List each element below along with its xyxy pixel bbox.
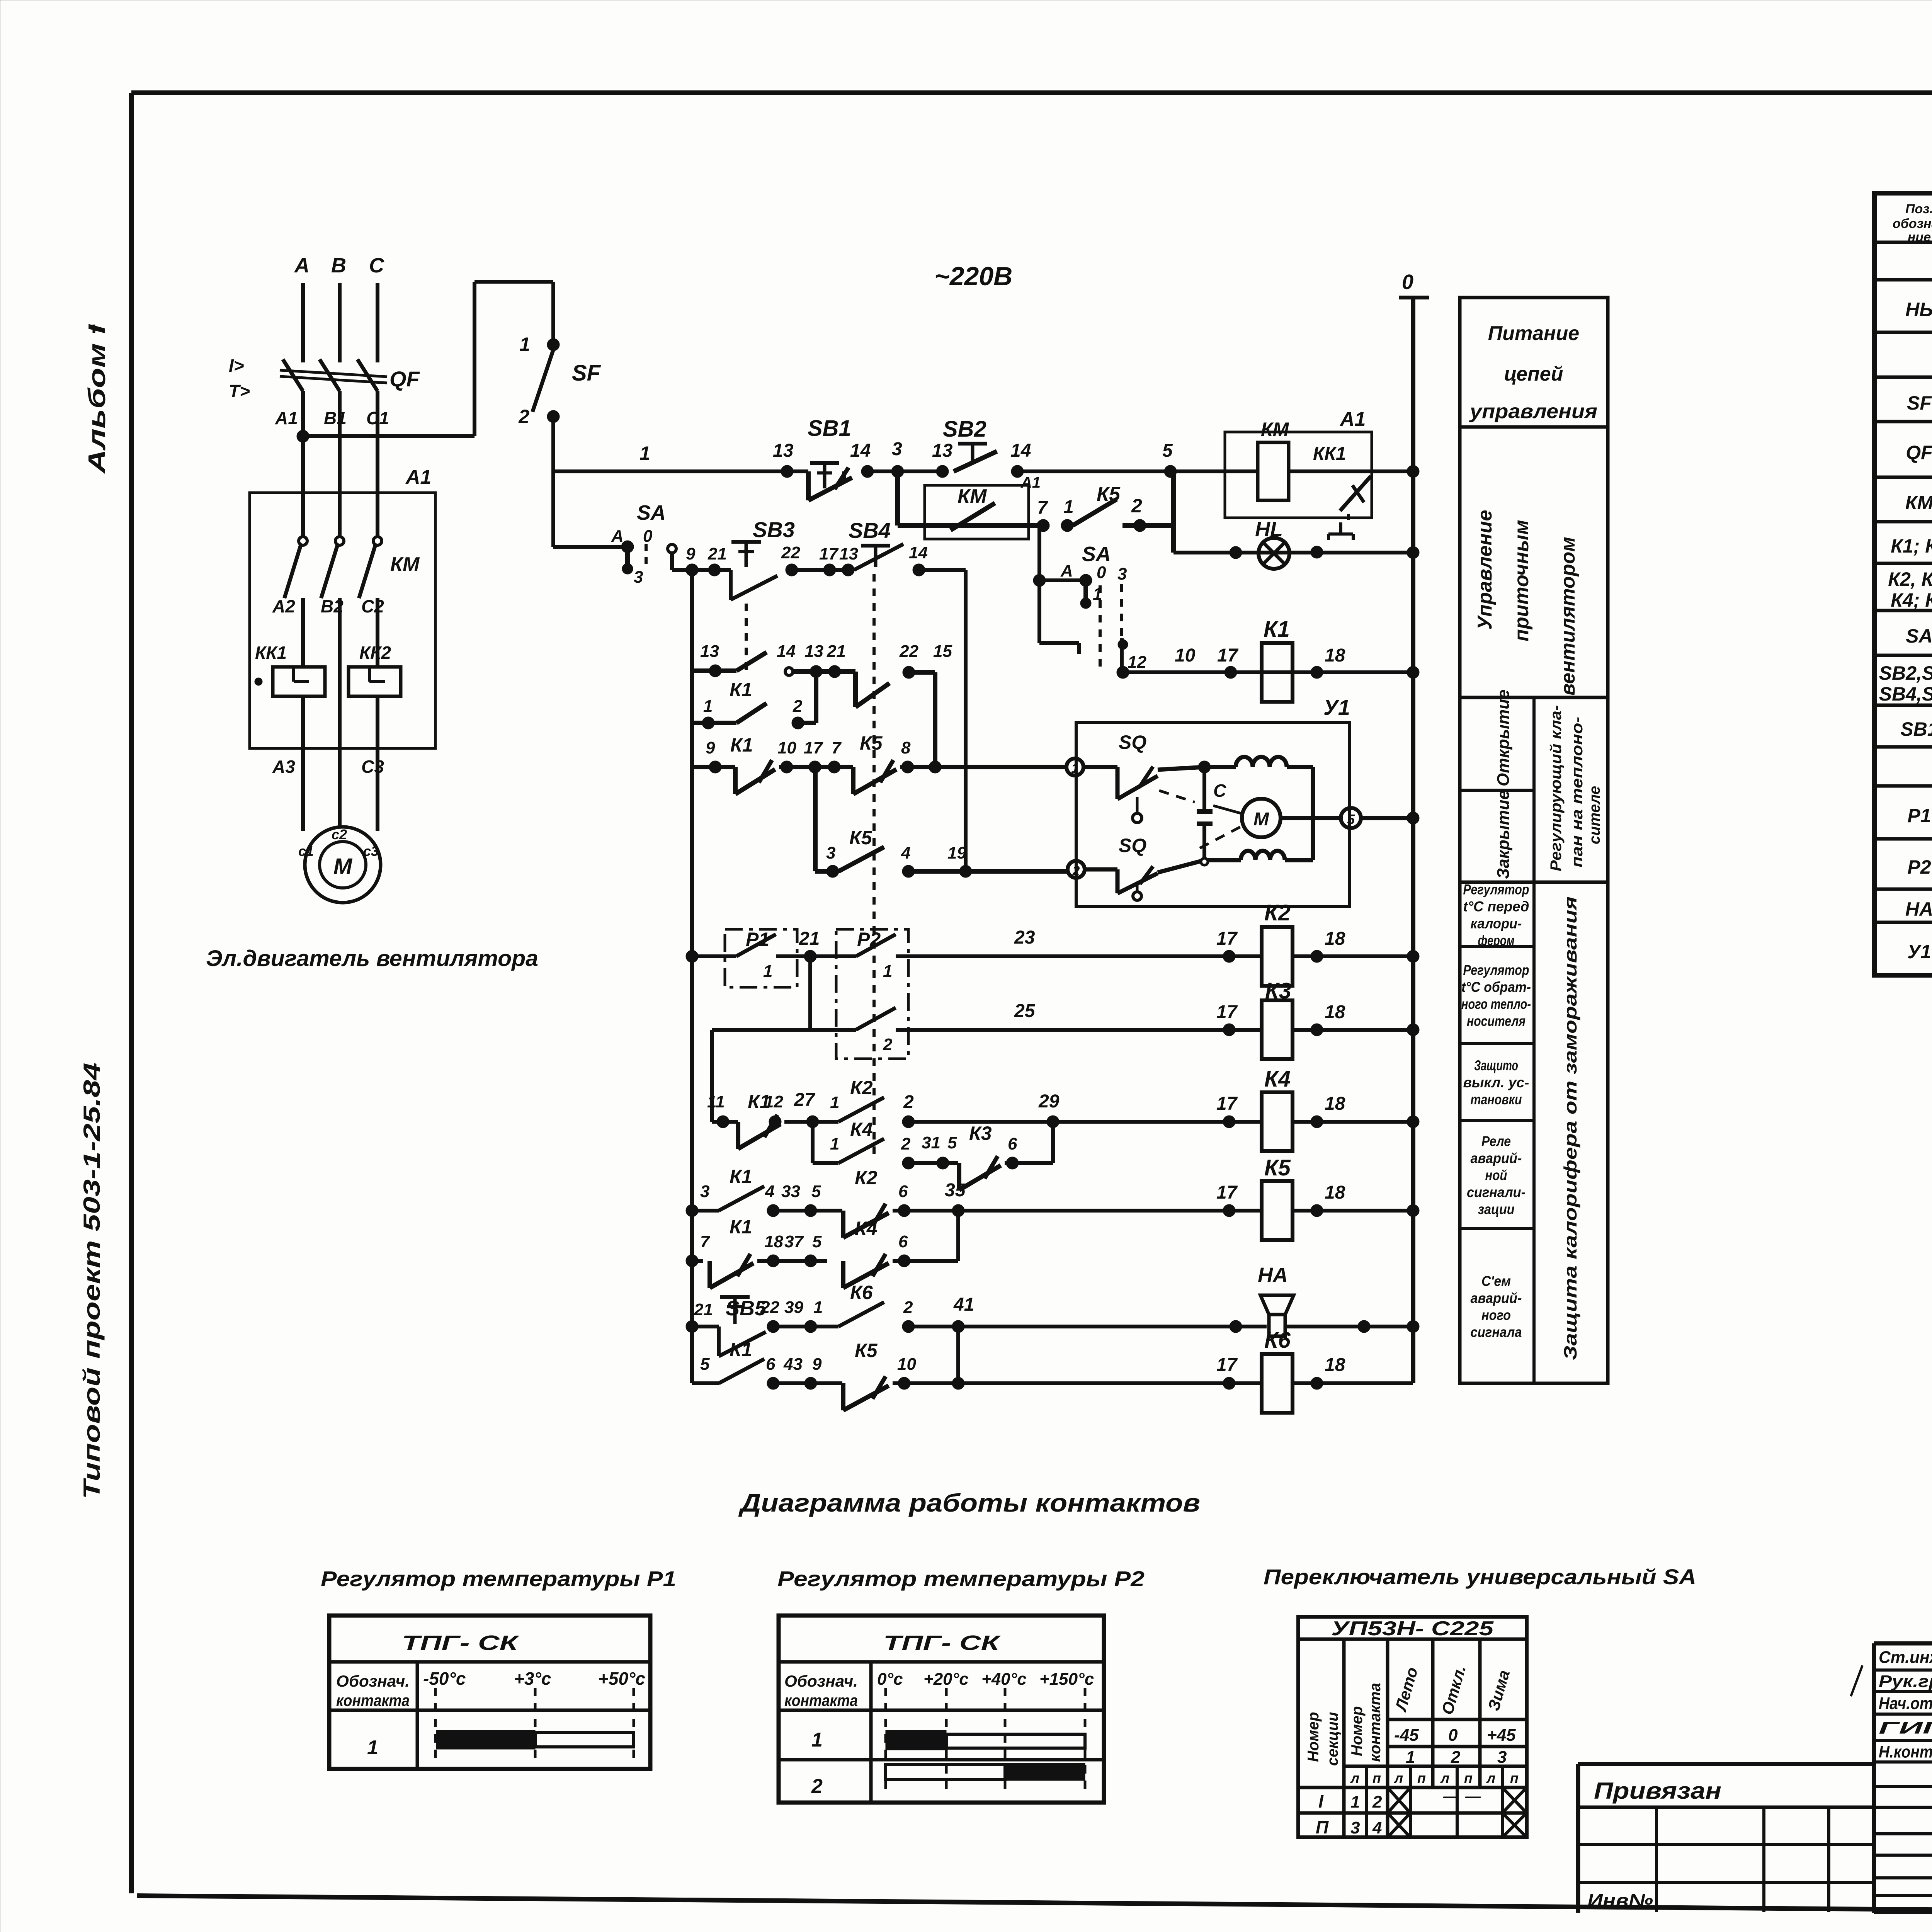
svg-text:Реле: Реле <box>1481 1133 1511 1149</box>
svg-text:К5: К5 <box>860 732 883 754</box>
svg-text:11: 11 <box>707 1092 725 1111</box>
svg-text:~220В: ~220В <box>934 262 1012 291</box>
svg-text:Открытие: Открытие <box>1494 689 1513 786</box>
svg-text:22: 22 <box>781 543 800 562</box>
svg-text:сителе: сителе <box>1586 786 1603 844</box>
svg-text:22: 22 <box>899 642 918 661</box>
svg-text:5: 5 <box>947 1133 957 1152</box>
svg-text:п: п <box>1417 1770 1426 1786</box>
svg-text:НА: НА <box>1905 898 1932 920</box>
svg-text:14: 14 <box>1010 440 1031 461</box>
svg-text:К4; К6: К4; К6 <box>1891 589 1932 611</box>
svg-text:контакта: контакта <box>336 1691 410 1709</box>
svg-text:С1: С1 <box>366 408 389 428</box>
svg-text:—: — <box>1465 1788 1481 1805</box>
svg-text:К2, К3;: К2, К3; <box>1888 568 1932 590</box>
svg-text:SF: SF <box>1907 392 1932 414</box>
svg-text:аварий-: аварий- <box>1471 1150 1522 1166</box>
svg-text:21: 21 <box>827 642 846 661</box>
svg-text:17: 17 <box>804 738 823 757</box>
svg-text:л: л <box>1486 1770 1495 1786</box>
svg-text:-50°с: -50°с <box>423 1668 466 1689</box>
svg-text:А: А <box>1060 561 1073 580</box>
svg-text:2: 2 <box>811 1775 823 1798</box>
svg-text:5: 5 <box>811 1182 821 1201</box>
svg-text:2: 2 <box>901 1134 911 1153</box>
svg-text:SА: SА <box>637 501 666 524</box>
svg-text:С'ем: С'ем <box>1481 1273 1511 1289</box>
svg-text:13: 13 <box>804 642 823 661</box>
svg-text:М: М <box>333 854 353 879</box>
svg-text:39: 39 <box>784 1298 803 1317</box>
svg-text:2: 2 <box>1072 864 1080 878</box>
svg-text:К2: К2 <box>850 1077 873 1099</box>
svg-text:К1; К5: К1; К5 <box>1891 535 1932 557</box>
svg-text:12: 12 <box>1128 653 1146 672</box>
svg-text:Нач.отд.: Нач.отд. <box>1879 1694 1932 1713</box>
svg-text:с3: с3 <box>363 843 379 859</box>
svg-text:У1: У1 <box>1323 695 1350 719</box>
svg-text:21: 21 <box>707 544 727 563</box>
svg-text:калори-: калори- <box>1471 916 1522 932</box>
svg-text:В2: В2 <box>321 596 344 616</box>
svg-text:3: 3 <box>700 1182 709 1201</box>
svg-text:5: 5 <box>1162 440 1173 461</box>
svg-text:КК1: КК1 <box>255 643 287 663</box>
svg-text:Регулятор температуры Р2: Регулятор температуры Р2 <box>777 1566 1145 1591</box>
svg-text:К1: К1 <box>730 679 752 701</box>
svg-text:7: 7 <box>832 738 842 757</box>
svg-text:п: п <box>1372 1770 1381 1786</box>
svg-text:л: л <box>1440 1770 1449 1786</box>
svg-text:0: 0 <box>1097 563 1106 582</box>
svg-text:Регулятор: Регулятор <box>1463 962 1529 978</box>
svg-text:6: 6 <box>898 1232 908 1251</box>
svg-text:T>: T> <box>229 381 250 401</box>
svg-text:К3: К3 <box>969 1122 992 1144</box>
svg-text:Переключатель универсальный SА: Переключатель универсальный SА <box>1264 1565 1696 1589</box>
svg-text:SВ4: SВ4 <box>849 518 891 543</box>
svg-text:А: А <box>294 254 310 277</box>
svg-text:п: п <box>1464 1770 1473 1786</box>
svg-text:К5: К5 <box>855 1340 878 1361</box>
svg-text:А3: А3 <box>272 757 295 777</box>
svg-text:SА: SА <box>1082 543 1111 566</box>
svg-text:-45: -45 <box>1394 1726 1419 1745</box>
svg-text:3: 3 <box>826 844 835 862</box>
svg-text:Н.контр.: Н.контр. <box>1879 1743 1932 1762</box>
svg-text:Ст.инж.: Ст.инж. <box>1879 1648 1932 1667</box>
svg-text:17: 17 <box>1216 1002 1238 1022</box>
svg-text:л: л <box>1394 1770 1403 1786</box>
svg-text:18: 18 <box>1325 1002 1345 1022</box>
svg-text:+3°с: +3°с <box>514 1668 551 1689</box>
svg-text:К4: К4 <box>1264 1066 1291 1092</box>
svg-text:ного: ного <box>1481 1307 1511 1323</box>
svg-text:4: 4 <box>1372 1818 1382 1837</box>
svg-text:А2: А2 <box>272 596 295 616</box>
svg-text:цепей: цепей <box>1504 363 1563 385</box>
svg-text:В1: В1 <box>324 408 347 428</box>
svg-text:К1: К1 <box>730 1339 752 1361</box>
svg-text:SВ3: SВ3 <box>753 517 795 542</box>
svg-text:37: 37 <box>784 1232 804 1251</box>
svg-text:П: П <box>1316 1817 1329 1837</box>
svg-text:КМ: КМ <box>1261 418 1289 440</box>
svg-text:л: л <box>1350 1770 1359 1786</box>
svg-text:ТПГ- СК: ТПГ- СК <box>402 1631 520 1655</box>
svg-text:ной: ной <box>1485 1167 1507 1183</box>
svg-text:ТПГ- СК: ТПГ- СК <box>883 1631 1001 1655</box>
svg-text:0: 0 <box>1402 270 1413 294</box>
svg-text:QF: QF <box>1906 442 1932 463</box>
svg-text:К5: К5 <box>1097 483 1121 505</box>
svg-text:КМ: КМ <box>1905 492 1932 514</box>
svg-text:1: 1 <box>811 1729 823 1751</box>
svg-text:с1: с1 <box>298 843 314 859</box>
svg-text:С: С <box>369 254 384 277</box>
svg-text:зации: зации <box>1478 1201 1515 1217</box>
svg-text:SВ2,SВ3: SВ2,SВ3 <box>1879 662 1932 684</box>
svg-text:9: 9 <box>812 1355 822 1374</box>
svg-text:К4: К4 <box>855 1218 878 1239</box>
svg-text:1: 1 <box>1350 1793 1360 1811</box>
svg-text:Поз.: Поз. <box>1905 202 1932 216</box>
svg-text:17: 17 <box>1217 645 1239 666</box>
svg-text:носителя: носителя <box>1467 1013 1526 1029</box>
svg-text:2: 2 <box>903 1298 913 1317</box>
svg-text:К1: К1 <box>730 1216 752 1238</box>
svg-text:4: 4 <box>901 844 910 862</box>
svg-text:3: 3 <box>1117 565 1127 583</box>
svg-text:0: 0 <box>1448 1726 1458 1745</box>
svg-text:+45: +45 <box>1487 1726 1516 1745</box>
svg-text:18: 18 <box>764 1232 783 1251</box>
svg-text:1: 1 <box>1071 761 1079 776</box>
svg-text:9: 9 <box>706 738 715 757</box>
svg-text:I>: I> <box>229 355 244 376</box>
svg-text:Регулятор: Регулятор <box>1463 882 1529 898</box>
svg-text:19: 19 <box>947 844 966 862</box>
svg-text:+40°с: +40°с <box>981 1670 1027 1689</box>
svg-text:18: 18 <box>1325 929 1345 949</box>
svg-text:К5: К5 <box>1264 1155 1291 1180</box>
svg-text:А1: А1 <box>405 466 431 488</box>
svg-text:41: 41 <box>953 1294 974 1315</box>
svg-text:21: 21 <box>694 1300 713 1319</box>
svg-text:НА: НА <box>1258 1264 1288 1287</box>
svg-text:секции: секции <box>1324 1712 1341 1766</box>
svg-text:7: 7 <box>700 1232 711 1251</box>
svg-text:Управление: Управление <box>1474 510 1496 630</box>
svg-text:сигнали-: сигнали- <box>1467 1184 1526 1200</box>
svg-text:Номер: Номер <box>1305 1712 1322 1762</box>
svg-text:1: 1 <box>519 333 530 355</box>
svg-text:25: 25 <box>1014 1001 1036 1021</box>
svg-text:1: 1 <box>703 697 713 716</box>
svg-text:SQ: SQ <box>1119 731 1146 753</box>
svg-text:2: 2 <box>1372 1793 1382 1811</box>
svg-text:1: 1 <box>367 1736 378 1759</box>
svg-text:18: 18 <box>1325 645 1345 666</box>
svg-text:SВ1: SВ1 <box>808 416 851 441</box>
svg-text:Привязан: Привязан <box>1594 1778 1721 1804</box>
svg-text:А: А <box>611 527 624 546</box>
svg-text:К6: К6 <box>1264 1328 1291 1353</box>
svg-text:К2: К2 <box>1264 900 1291 925</box>
svg-text:17: 17 <box>1216 1182 1238 1203</box>
svg-text:ние: ние <box>1908 230 1931 245</box>
svg-text:14: 14 <box>777 642 796 661</box>
svg-text:18: 18 <box>1325 1182 1345 1203</box>
svg-text:контакта: контакта <box>1367 1683 1384 1762</box>
svg-text:К3: К3 <box>1265 978 1291 1003</box>
svg-text:Типовой проект 503-1-25.84: Типовой проект 503-1-25.84 <box>79 1063 105 1499</box>
svg-text:К2: К2 <box>855 1167 878 1189</box>
svg-text:К1: К1 <box>730 734 753 756</box>
svg-text:УП53Н- С225: УП53Н- С225 <box>1331 1617 1494 1640</box>
svg-text:Обознач.: Обознач. <box>784 1672 858 1690</box>
svg-text:13: 13 <box>773 440 794 461</box>
svg-text:6: 6 <box>766 1355 776 1374</box>
svg-text:А1: А1 <box>1339 408 1366 430</box>
svg-text:1: 1 <box>763 962 772 981</box>
svg-text:КМ: КМ <box>957 485 987 508</box>
svg-text:1: 1 <box>639 442 650 464</box>
svg-text:SQ: SQ <box>1119 835 1146 856</box>
svg-text:10: 10 <box>897 1355 916 1374</box>
svg-text:К1: К1 <box>1264 617 1290 642</box>
svg-text:+50°с: +50°с <box>598 1668 645 1689</box>
svg-text:Регулятор температуры Р1: Регулятор температуры Р1 <box>321 1566 676 1591</box>
svg-text:SF: SF <box>572 361 601 386</box>
svg-text:6: 6 <box>1008 1134 1017 1153</box>
svg-text:5: 5 <box>812 1232 822 1251</box>
svg-text:+150°с: +150°с <box>1039 1670 1094 1689</box>
svg-text:8: 8 <box>901 738 911 757</box>
svg-text:29: 29 <box>1038 1091 1060 1112</box>
svg-text:QF: QF <box>389 367 420 391</box>
svg-text:К4: К4 <box>850 1119 873 1140</box>
svg-text:43: 43 <box>783 1355 803 1374</box>
svg-text:2: 2 <box>883 1035 893 1054</box>
svg-text:2: 2 <box>793 697 803 716</box>
svg-text:17: 17 <box>1216 929 1238 949</box>
svg-text:4: 4 <box>765 1182 774 1201</box>
svg-text:1: 1 <box>830 1134 839 1153</box>
svg-text:К1: К1 <box>730 1166 752 1187</box>
svg-text:35: 35 <box>945 1180 966 1201</box>
svg-text:10: 10 <box>777 738 796 757</box>
svg-text:С3: С3 <box>361 757 384 777</box>
svg-text:14: 14 <box>909 543 928 562</box>
svg-text:НL: НL <box>1255 518 1283 541</box>
svg-text:5: 5 <box>700 1355 710 1374</box>
svg-text:Закрытие: Закрытие <box>1494 790 1513 879</box>
svg-text:17: 17 <box>1216 1355 1238 1375</box>
svg-text:33: 33 <box>781 1182 800 1201</box>
svg-text:приточным: приточным <box>1510 520 1533 641</box>
svg-text:с2: с2 <box>332 827 347 842</box>
svg-text:21: 21 <box>799 929 820 949</box>
svg-text:—: — <box>1443 1788 1459 1805</box>
svg-text:31: 31 <box>922 1133 940 1152</box>
svg-text:аварий-: аварий- <box>1471 1290 1522 1306</box>
svg-text:КМ: КМ <box>390 553 420 576</box>
svg-text:t°С обрат-: t°С обрат- <box>1461 979 1531 995</box>
svg-text:18: 18 <box>1325 1355 1345 1375</box>
svg-text:t°С перед: t°С перед <box>1463 899 1529 915</box>
svg-text:вентилятором: вентилятором <box>1557 537 1579 696</box>
svg-text:2: 2 <box>903 1092 914 1112</box>
svg-text:12: 12 <box>764 1092 783 1111</box>
svg-text:23: 23 <box>1014 927 1035 948</box>
svg-text:27: 27 <box>794 1090 816 1110</box>
svg-text:НЬ: НЬ <box>1905 299 1932 320</box>
svg-text:ГИП: ГИП <box>1879 1719 1932 1738</box>
svg-text:Регулирующий кла-: Регулирующий кла- <box>1548 705 1565 871</box>
svg-text:SВ2: SВ2 <box>943 417 986 442</box>
svg-text:17: 17 <box>1216 1094 1238 1114</box>
svg-text:п: п <box>1510 1770 1519 1786</box>
svg-text:контакта: контакта <box>784 1691 858 1709</box>
svg-text:Эл.двигатель вентилятора: Эл.двигатель вентилятора <box>206 946 538 971</box>
svg-text:Р1: Р1 <box>1907 805 1931 827</box>
svg-text:А1: А1 <box>1020 474 1041 491</box>
svg-text:SВ1: SВ1 <box>1900 718 1932 740</box>
svg-text:пан на теплоно-: пан на теплоно- <box>1569 717 1586 867</box>
svg-text:SВ4,SВ5: SВ4,SВ5 <box>1879 683 1932 705</box>
svg-text:3: 3 <box>892 439 902 459</box>
svg-text:0: 0 <box>643 527 653 546</box>
svg-text:17: 17 <box>819 544 839 563</box>
svg-text:ного тепло-: ного тепло- <box>1461 996 1531 1012</box>
svg-text:I: I <box>1318 1791 1324 1811</box>
svg-text:обознач: обознач <box>1893 216 1932 231</box>
svg-text:0°с: 0°с <box>877 1670 903 1689</box>
svg-text:К5: К5 <box>849 827 872 849</box>
svg-text:выкл. ус-: выкл. ус- <box>1463 1075 1529 1090</box>
svg-text:1: 1 <box>1063 497 1074 517</box>
svg-text:М: М <box>1253 809 1269 830</box>
svg-text:Р2: Р2 <box>857 929 881 950</box>
svg-text:18: 18 <box>1325 1094 1345 1114</box>
svg-text:В: В <box>331 254 346 277</box>
svg-text:2: 2 <box>1451 1748 1461 1767</box>
svg-text:Инв№: Инв№ <box>1587 1890 1653 1912</box>
svg-text:Защито: Защито <box>1474 1058 1518 1073</box>
svg-text:1: 1 <box>813 1298 823 1317</box>
svg-text:9: 9 <box>686 544 696 563</box>
svg-text:С: С <box>1213 781 1226 801</box>
svg-text:К6: К6 <box>850 1282 873 1303</box>
svg-text:5: 5 <box>1347 811 1355 827</box>
svg-text:13: 13 <box>700 642 719 661</box>
svg-text:тановки: тановки <box>1471 1092 1522 1107</box>
svg-text:Рук.гр.: Рук.гр. <box>1879 1672 1932 1691</box>
svg-text:сигнала: сигнала <box>1471 1324 1522 1340</box>
svg-text:1: 1 <box>830 1093 839 1112</box>
svg-text:С2: С2 <box>361 596 384 616</box>
svg-text:Номер: Номер <box>1349 1706 1366 1756</box>
svg-text:Диаграмма работы контактов: Диаграмма работы контактов <box>738 1488 1200 1517</box>
svg-text:10: 10 <box>1175 645 1196 666</box>
svg-text:Питание: Питание <box>1488 322 1579 345</box>
svg-text:КК1: КК1 <box>1313 444 1346 464</box>
svg-text:Альбом I: Альбом I <box>84 324 111 474</box>
svg-text:1: 1 <box>1406 1748 1415 1767</box>
svg-text:3: 3 <box>1497 1748 1507 1767</box>
svg-text:13: 13 <box>839 544 858 563</box>
svg-text:Защита калорифера от заморажив: Защита калорифера от замораживания <box>1560 896 1580 1360</box>
svg-text:13: 13 <box>932 440 953 461</box>
svg-text:Обознач.: Обознач. <box>336 1672 410 1690</box>
svg-text:Р2: Р2 <box>1907 856 1931 878</box>
svg-text:КК2: КК2 <box>359 643 391 663</box>
svg-text:SА: SА <box>1906 625 1932 647</box>
svg-text:А1: А1 <box>275 408 298 428</box>
svg-text:управления: управления <box>1469 400 1597 423</box>
svg-text:2: 2 <box>518 406 529 427</box>
svg-text:1: 1 <box>883 962 892 981</box>
svg-text:У1: У1 <box>1907 941 1931 963</box>
svg-text:3: 3 <box>634 568 643 587</box>
svg-text:15: 15 <box>933 642 952 661</box>
svg-text:7: 7 <box>1037 498 1048 518</box>
svg-text:6: 6 <box>898 1182 908 1201</box>
svg-text:22: 22 <box>760 1298 779 1317</box>
svg-text:2: 2 <box>1131 495 1142 517</box>
svg-text:3: 3 <box>1350 1818 1360 1837</box>
svg-text:+20°с: +20°с <box>923 1670 969 1689</box>
svg-text:14: 14 <box>850 440 871 461</box>
